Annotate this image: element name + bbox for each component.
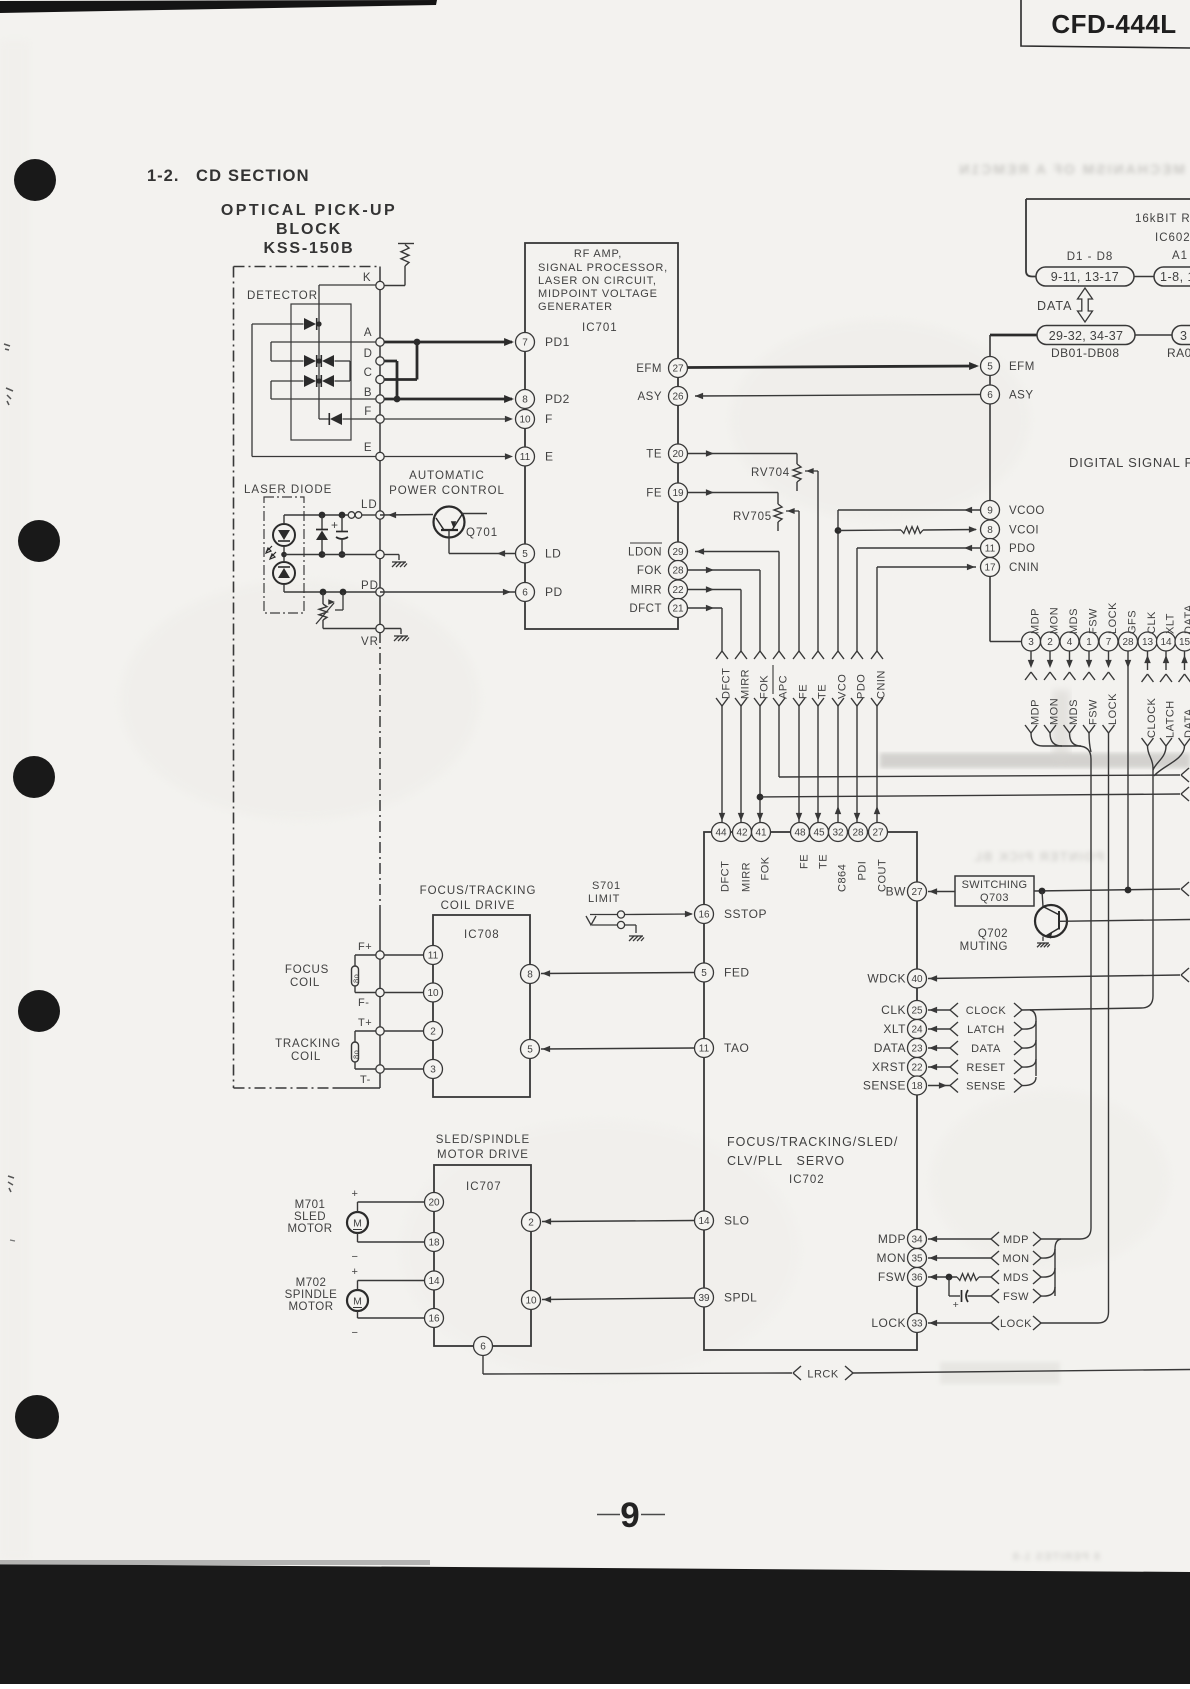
svg-text:42: 42 xyxy=(736,828,748,839)
DSP pin 7 LOCK xyxy=(1099,632,1118,651)
IC701 pin 11 E xyxy=(516,447,535,466)
IC701 pin 26 ASY xyxy=(669,387,688,406)
svg-text:5: 5 xyxy=(522,549,528,560)
svg-text:Q703: Q703 xyxy=(980,892,1009,904)
wire GFS column xyxy=(1127,651,1129,890)
model number box CFD-444L xyxy=(1021,0,1190,48)
svg-text:27: 27 xyxy=(872,828,884,839)
svg-text:MDS: MDS xyxy=(1068,608,1080,634)
svg-text:LASER DIODE: LASER DIODE xyxy=(244,484,332,496)
svg-text:DFCT: DFCT xyxy=(721,668,733,699)
punch hole 1 xyxy=(14,159,56,201)
IC702 pin 33 LOCK xyxy=(908,1314,927,1333)
wire RESET row xyxy=(928,1066,950,1068)
svg-text:TE: TE xyxy=(818,854,830,869)
IC702 pin 14 SLO xyxy=(695,1211,714,1230)
svg-text:F: F xyxy=(545,412,553,426)
svg-text:ASY: ASY xyxy=(1009,390,1034,402)
svg-text:3: 3 xyxy=(1028,637,1034,648)
svg-text:FE: FE xyxy=(798,684,810,699)
svg-text:POWER CONTROL: POWER CONTROL xyxy=(389,485,505,497)
svg-text:POINTER PICK BL: POINTER PICK BL xyxy=(972,850,1104,864)
svg-text:RF AMP,: RF AMP, xyxy=(574,248,622,260)
svg-text:COIL: COIL xyxy=(291,1051,321,1063)
transistor Q702 muting xyxy=(1042,891,1043,907)
IC702 pin 27 BW xyxy=(908,882,927,901)
svg-text:22: 22 xyxy=(911,1063,923,1074)
svg-text:F: F xyxy=(364,406,372,418)
svg-text:32: 32 xyxy=(832,828,844,839)
scan black bar bottom xyxy=(0,1564,1190,1684)
svg-text:RA0: RA0 xyxy=(1167,346,1190,360)
wire LOCK down from DSP xyxy=(1108,651,1110,660)
svg-text:DATA: DATA xyxy=(1037,299,1072,313)
wire MDS row with resistor xyxy=(928,1276,957,1278)
svg-text:27: 27 xyxy=(672,364,684,375)
detector common cathode line xyxy=(318,285,320,419)
svg-text:FE: FE xyxy=(799,854,811,869)
svg-text:TE: TE xyxy=(817,684,829,699)
trimmer RV705 xyxy=(774,504,782,522)
wire TAO IC702-11 to IC708-5 xyxy=(541,1048,694,1049)
node mid xyxy=(376,550,384,558)
svg-text:8: 8 xyxy=(987,525,993,536)
RV704 wiper to TE column xyxy=(805,470,818,472)
svg-text:16: 16 xyxy=(698,910,710,921)
svg-text:11: 11 xyxy=(428,951,439,962)
svg-text:6: 6 xyxy=(522,588,528,599)
RAM address pins pill (clipped) xyxy=(1154,267,1190,286)
svg-text:MON: MON xyxy=(877,1251,907,1265)
wire MDP down from DSP xyxy=(1030,651,1032,660)
svg-text:15: 15 xyxy=(1179,637,1190,648)
svg-text:39: 39 xyxy=(698,1293,710,1304)
svg-text:8 PERITES 1-8: 8 PERITES 1-8 xyxy=(1012,1551,1100,1563)
wire FED IC702-5 to IC708-8 xyxy=(541,973,694,974)
RAM data pins pill 9-11,13-17 xyxy=(1036,267,1134,286)
svg-text:2: 2 xyxy=(528,1218,534,1229)
svg-text:DATA: DATA xyxy=(1183,708,1190,738)
svg-text:36: 36 xyxy=(911,1273,923,1284)
IC702 pin 35 MON xyxy=(908,1249,927,1268)
svg-text:COIL: COIL xyxy=(290,977,320,989)
svg-text:23: 23 xyxy=(911,1044,923,1055)
svg-text:27: 27 xyxy=(911,887,923,898)
wire TE IC701-20 to RV704 xyxy=(688,453,797,455)
terminal F+ xyxy=(376,951,384,959)
svg-text:APC: APC xyxy=(778,675,790,699)
wire E to pin 11 xyxy=(380,456,509,458)
svg-text:MDS: MDS xyxy=(1068,699,1080,725)
svg-text:+: + xyxy=(352,1266,359,1278)
svg-text:10: 10 xyxy=(525,1296,537,1307)
svg-text:5: 5 xyxy=(527,1045,533,1056)
wire C up to A (thick) xyxy=(380,378,417,381)
connector chevrons + label FOK column xyxy=(752,652,768,706)
wire pd bottom to PD row xyxy=(283,584,285,592)
svg-text:XLT: XLT xyxy=(883,1022,906,1036)
junction Q702 base xyxy=(1039,888,1046,895)
svg-text:8o: 8o xyxy=(352,974,361,983)
svg-text:CFD-444L: CFD-444L xyxy=(1051,9,1176,39)
wire FSW down from DSP xyxy=(1088,651,1090,660)
svg-text:EFM: EFM xyxy=(636,363,662,375)
svg-text:3: 3 xyxy=(430,1065,436,1076)
wire PD row to IC701 pin 6 xyxy=(380,591,515,593)
IC701 pin 22 MIRR xyxy=(669,580,688,599)
svg-text:14: 14 xyxy=(698,1216,710,1227)
svg-text:1: 1 xyxy=(1086,637,1092,648)
svg-text:PD1: PD1 xyxy=(545,335,570,349)
svg-text:DATA: DATA xyxy=(1183,604,1190,634)
IC701 pin 6 PD xyxy=(516,583,535,602)
wire BW row with switching xyxy=(928,891,955,893)
scan black bar top xyxy=(0,0,437,13)
motor M701 sled xyxy=(347,1212,368,1233)
svg-text:TRACKING: TRACKING xyxy=(275,1038,341,1050)
svg-text:2: 2 xyxy=(430,1027,436,1038)
svg-text:1-8, 18: 1-8, 18 xyxy=(1160,270,1190,284)
svg-text:CLK: CLK xyxy=(1146,611,1158,634)
svg-text:40: 40 xyxy=(911,974,923,985)
svg-text:RV705: RV705 xyxy=(733,511,772,523)
IC701 pin 21 DFCT xyxy=(669,599,688,618)
node K xyxy=(376,281,384,289)
terminal T- xyxy=(376,1065,384,1073)
svg-text:14: 14 xyxy=(428,1276,440,1287)
svg-text:SLO: SLO xyxy=(724,1214,750,1228)
wire A row thin xyxy=(271,341,376,343)
fan vertical MDP group xyxy=(1055,1239,1061,1296)
svg-text:M701: M701 xyxy=(295,1199,326,1211)
RV705 wiper to FE column xyxy=(786,510,799,512)
svg-text:48: 48 xyxy=(794,828,806,839)
harness bundle MDP/MON/MDS/FSW to servo rows xyxy=(1031,733,1091,1239)
IC701 pin 29 LDON xyxy=(669,542,688,561)
svg-text:TAO: TAO xyxy=(724,1041,749,1055)
faint mirrored bleed-through text (printed block) xyxy=(972,850,1104,864)
terminal F- xyxy=(376,988,384,996)
svg-text:FED: FED xyxy=(724,966,750,980)
wire M701 - to pin 18 xyxy=(357,1233,359,1242)
node C xyxy=(376,375,384,383)
wire D pair right tie xyxy=(335,360,351,362)
terminal T+ xyxy=(376,1027,384,1035)
svg-text:26: 26 xyxy=(672,392,684,403)
wire MON row xyxy=(928,1257,991,1259)
wire D down to B (thick) xyxy=(380,360,397,363)
svg-text:T-: T- xyxy=(360,1074,371,1086)
IC702 pin 39 SPDL xyxy=(695,1288,714,1307)
margin specks xyxy=(4,344,10,350)
svg-text:19: 19 xyxy=(672,488,684,499)
IC701 pin 8 PD2 xyxy=(516,390,535,409)
node PD xyxy=(376,588,384,596)
DSP pin 2 MON xyxy=(1041,632,1060,651)
wire LATCH row xyxy=(928,1028,950,1030)
IC707 pin 14 xyxy=(425,1271,444,1290)
ground xyxy=(629,936,644,941)
IC707 pin 18 xyxy=(425,1233,444,1252)
junction A/C xyxy=(414,339,421,346)
wire T+ to pin 2 xyxy=(384,1030,423,1032)
svg-text:K: K xyxy=(363,272,371,284)
svg-text:CLK: CLK xyxy=(881,1003,906,1017)
IC702 pin 27 COUT xyxy=(869,823,888,842)
svg-text:CLOCK: CLOCK xyxy=(1146,697,1158,738)
IC701 pin 5 LD xyxy=(516,544,535,563)
svg-text:FOK: FOK xyxy=(637,565,662,577)
wire CLOCK up to DSP xyxy=(1147,651,1149,670)
svg-text:DATA: DATA xyxy=(971,1043,1001,1055)
IC701 pin 28 FOK xyxy=(669,561,688,580)
IC702 pin 18 SENSE xyxy=(908,1076,927,1095)
DSP pin 15 DATA xyxy=(1175,632,1190,651)
laser diode box (dash-dot) xyxy=(264,497,304,613)
svg-text:CLOCK: CLOCK xyxy=(966,1005,1007,1017)
IC708 pin 3 xyxy=(424,1060,443,1079)
svg-text:FE: FE xyxy=(646,488,662,500)
svg-text:LASER ON CIRCUIT,: LASER ON CIRCUIT, xyxy=(538,275,657,287)
svg-text:+: + xyxy=(331,518,339,532)
svg-text:ASY: ASY xyxy=(637,391,662,403)
node D xyxy=(376,357,384,365)
svg-text:MON: MON xyxy=(1049,607,1061,634)
svg-text:IC707: IC707 xyxy=(466,1181,502,1193)
svg-text:9: 9 xyxy=(987,506,993,517)
punch hole 5 xyxy=(15,1395,59,1439)
DSP pin 11 PDO xyxy=(981,539,1000,558)
wire top photodiode anode xyxy=(252,323,304,325)
svg-text:1-2.: 1-2. xyxy=(147,167,179,185)
ferrite bead xyxy=(348,512,355,519)
IC702 pin 5 FED xyxy=(695,963,714,982)
svg-text:PD2: PD2 xyxy=(545,392,570,406)
svg-text:EFM: EFM xyxy=(1009,361,1035,373)
svg-text:IC708: IC708 xyxy=(464,929,500,941)
IC702 pin 44 DFCT xyxy=(712,823,731,842)
svg-text:D: D xyxy=(364,348,373,360)
DSP pin 9 VCOO xyxy=(981,501,1000,520)
IC701 pin 19 FE xyxy=(669,483,688,502)
wire MON down from DSP xyxy=(1049,651,1051,660)
DSP pin 14 XLT xyxy=(1157,632,1176,651)
wire CLOCK row to harness xyxy=(1022,1008,1141,1010)
svg-text:VCOO: VCOO xyxy=(1009,505,1045,517)
switching block Q703 xyxy=(955,876,1034,906)
wire FOK column xyxy=(688,569,760,571)
resistor (laser K bias) xyxy=(401,245,409,267)
wire far-left bracket (E) xyxy=(251,324,253,457)
svg-text:5: 5 xyxy=(987,362,993,373)
IC702 pin 11 TAO xyxy=(695,1039,714,1058)
IC702 pin 16 SSTOP xyxy=(695,905,714,924)
svg-text:COIL DRIVE: COIL DRIVE xyxy=(441,900,516,912)
wire MIRR column xyxy=(688,589,741,591)
svg-text:E: E xyxy=(364,442,372,454)
svg-text:11: 11 xyxy=(699,1044,710,1055)
node B xyxy=(376,395,384,403)
svg-text:18: 18 xyxy=(911,1081,923,1092)
IC702 pin 48 FE xyxy=(791,823,810,842)
IC708 pin 5 xyxy=(521,1040,540,1059)
svg-text:A: A xyxy=(364,327,372,339)
svg-text:VCOI: VCOI xyxy=(1009,525,1039,537)
ground xyxy=(394,636,409,641)
svg-text:XRST: XRST xyxy=(872,1060,906,1074)
wire K node to resistor xyxy=(380,285,405,287)
wire MDP row xyxy=(928,1238,991,1240)
wire FE column xyxy=(798,511,800,823)
digital signal processor box xyxy=(990,334,1037,337)
IC702 pin 45 TE xyxy=(810,823,829,842)
IC708 pin 2 xyxy=(424,1022,443,1041)
svg-text:SENSE: SENSE xyxy=(863,1079,906,1093)
svg-text:KSS-150B: KSS-150B xyxy=(264,240,355,257)
svg-text:+: + xyxy=(352,1188,359,1200)
trimmer RV704 xyxy=(793,464,801,482)
svg-text:20: 20 xyxy=(672,449,684,460)
svg-text:24: 24 xyxy=(911,1025,923,1036)
wire VCOI with resistor xyxy=(838,529,901,532)
svg-text:3: 3 xyxy=(1180,329,1187,343)
svg-text:28: 28 xyxy=(852,828,864,839)
svg-text:28: 28 xyxy=(672,566,684,577)
wire E row xyxy=(252,456,376,458)
svg-text:SPDL: SPDL xyxy=(724,1291,757,1305)
connector chevrons + label MIRR column xyxy=(733,652,749,706)
node F xyxy=(376,415,384,423)
tracking coil xyxy=(355,1030,376,1032)
IC708 pin 10 xyxy=(424,983,443,1002)
photodiode top (to K) xyxy=(304,318,316,330)
svg-text:MDS: MDS xyxy=(1003,1272,1029,1284)
servo IC702 box xyxy=(704,832,917,1350)
svg-text:16: 16 xyxy=(428,1314,440,1325)
wire: block right boundary solid segment with connector pins xyxy=(379,267,381,633)
IC702 pin 40 WDCK xyxy=(908,969,927,988)
svg-text:B: B xyxy=(364,387,372,399)
svg-text:SLED: SLED xyxy=(294,1211,326,1223)
wire VCO column xyxy=(837,510,839,823)
DSP pin 13 CLK xyxy=(1138,632,1157,651)
wire MDS down from DSP xyxy=(1069,651,1071,660)
wire CNIN column xyxy=(877,566,976,568)
DSP pin 5 EFM xyxy=(981,357,1000,376)
junction FOK branch xyxy=(757,794,764,801)
wire A to PD1 (thick) xyxy=(380,341,512,344)
mid row to ground xyxy=(319,551,326,558)
IC707 pin 20 xyxy=(425,1193,444,1212)
wire F- to pin 10 xyxy=(384,992,423,994)
svg-text:DATA: DATA xyxy=(874,1041,906,1055)
DSP pin 3 MDP xyxy=(1022,632,1041,651)
punch hole 4 xyxy=(18,990,60,1032)
svg-text:LIMIT: LIMIT xyxy=(588,893,620,905)
svg-text:M: M xyxy=(353,1218,362,1230)
wire ASY DSP-6 to IC701-26 xyxy=(695,395,980,397)
svg-text:+: + xyxy=(953,1299,960,1311)
svg-text:C864: C864 xyxy=(837,864,849,892)
wire B to PD2 (thick) xyxy=(380,398,512,401)
svg-text:PD: PD xyxy=(545,585,563,599)
connector chevrons + label APC column xyxy=(771,652,787,706)
svg-text:VR: VR xyxy=(361,636,379,648)
svg-text:PDO: PDO xyxy=(1009,543,1035,555)
wire F to pin 10 xyxy=(380,418,509,420)
DSP pin 6 ASY xyxy=(981,385,1000,404)
svg-text:MDP: MDP xyxy=(1003,1234,1029,1246)
svg-text:7: 7 xyxy=(1106,637,1112,648)
svg-text:PDI: PDI xyxy=(857,861,869,881)
svg-text:18: 18 xyxy=(428,1238,440,1249)
wire M702 - to pin 16 xyxy=(357,1311,359,1318)
svg-text:DFCT: DFCT xyxy=(720,861,732,892)
svg-text:DFCT: DFCT xyxy=(629,603,662,615)
wire S701 lower contact to ground xyxy=(625,924,637,926)
IC702 pin 23 DATA xyxy=(908,1039,927,1058)
IC702 pin 42 MIRR xyxy=(733,823,752,842)
connector chevrons + label PDO column xyxy=(849,652,865,706)
connector chevrons + label FE column xyxy=(791,652,807,706)
svg-text:MON: MON xyxy=(1002,1253,1029,1265)
svg-text:BLOCK: BLOCK xyxy=(276,221,342,238)
protection diode xyxy=(321,515,323,529)
svg-text:MECHANISM OF A REMC1N: MECHANISM OF A REMC1N xyxy=(957,161,1185,177)
DSP address pill (clipped) xyxy=(1172,326,1190,345)
IC702 pin 22 XRST xyxy=(908,1058,927,1077)
svg-text:17: 17 xyxy=(984,563,996,574)
svg-text:MOTOR DRIVE: MOTOR DRIVE xyxy=(437,1149,529,1161)
svg-text:FSW: FSW xyxy=(1088,699,1100,725)
svg-text:LRCK: LRCK xyxy=(807,1369,839,1381)
svg-text:RV704: RV704 xyxy=(751,467,790,479)
svg-text:FOCUS/TRACKING/SLED/: FOCUS/TRACKING/SLED/ xyxy=(727,1135,898,1149)
svg-text:7: 7 xyxy=(522,338,528,349)
DSP pin 28 GFS xyxy=(1119,632,1138,651)
node VR pin xyxy=(376,624,384,632)
svg-text:F-: F- xyxy=(358,997,369,1009)
IC707 pin 6 xyxy=(474,1337,493,1356)
svg-text:LOCK: LOCK xyxy=(1107,602,1119,634)
svg-text:M: M xyxy=(353,1296,362,1308)
svg-text:DB01-DB08: DB01-DB08 xyxy=(1051,346,1120,360)
op-amp IC701 RF amp box xyxy=(525,243,678,629)
IC702 pin 34 MDP xyxy=(908,1230,927,1249)
svg-text:C: C xyxy=(364,367,373,379)
wire SLO IC702-14 to IC707-2 xyxy=(542,1221,694,1222)
punch hole 2 xyxy=(18,520,60,562)
svg-text:44: 44 xyxy=(715,828,727,839)
IC707 pin 10 xyxy=(522,1291,541,1310)
svg-text:−: − xyxy=(352,1327,359,1339)
harness bundle CLOCK/LATCH/DATA to servo xyxy=(1141,746,1153,1008)
LD row with ferrite bead xyxy=(322,514,348,516)
IC708 pin 8 xyxy=(521,965,540,984)
svg-text:45: 45 xyxy=(813,828,825,839)
wire FE IC701-19 to RV705 xyxy=(688,492,778,494)
svg-text:T+: T+ xyxy=(358,1017,372,1029)
svg-text:Q702: Q702 xyxy=(978,928,1008,940)
svg-text:GENERATER: GENERATER xyxy=(538,301,613,313)
svg-text:16kBIT R: 16kBIT R xyxy=(1135,213,1190,225)
svg-text:6: 6 xyxy=(987,390,993,401)
svg-text:IC701: IC701 xyxy=(582,322,618,334)
DSP pin 4 MDS xyxy=(1060,632,1079,651)
wire M701 + to pin 20 xyxy=(357,1202,359,1212)
local fan LATCH/DATA/RESET/SENSE xyxy=(1030,1010,1036,1076)
IC707 pin 2 xyxy=(522,1213,541,1232)
